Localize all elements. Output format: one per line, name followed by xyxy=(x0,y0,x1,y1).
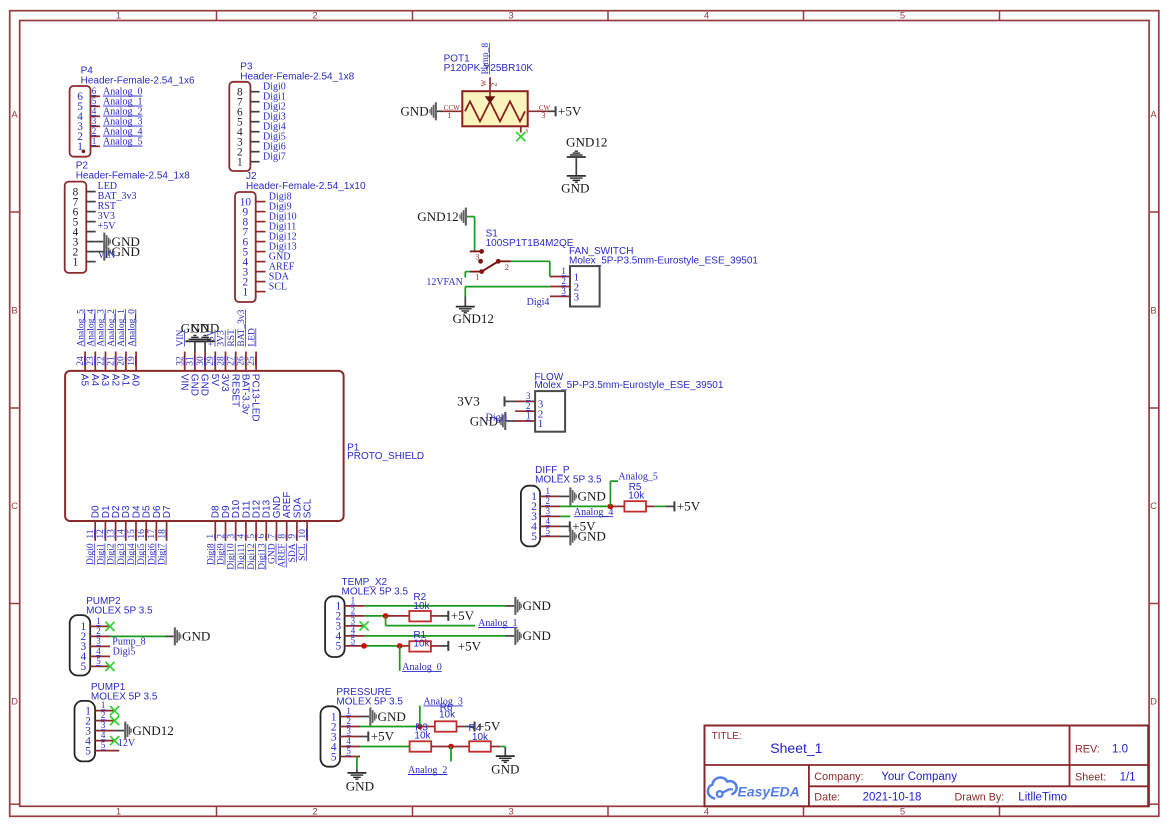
svg-text:4: 4 xyxy=(101,730,106,740)
svg-text:2: 2 xyxy=(92,126,97,136)
svg-text:VIN: VIN xyxy=(98,250,116,261)
ground flag GND at PUMP2 pin2 xyxy=(174,627,211,645)
svg-text:3: 3 xyxy=(508,807,513,818)
TEMP_X2 pin 5 xyxy=(335,636,364,653)
P2 pin 1 xyxy=(73,256,96,268)
P1 pin 15 (D4) xyxy=(127,505,143,541)
svg-text:D: D xyxy=(1150,697,1157,708)
svg-text:3V3: 3V3 xyxy=(219,374,230,392)
svg-text:3: 3 xyxy=(546,506,551,516)
wire Analog_0 xyxy=(399,646,401,671)
svg-text:1: 1 xyxy=(538,418,544,430)
svg-text:3: 3 xyxy=(541,110,545,120)
svg-text:4: 4 xyxy=(546,516,551,526)
potentiometer POT1 body xyxy=(462,91,527,126)
wire PRESSURE pin4 to R3 xyxy=(360,746,410,748)
svg-text:Company:: Company: xyxy=(814,771,863,783)
svg-text:A: A xyxy=(11,110,18,121)
P1 pin 22 (A3) xyxy=(96,352,110,387)
wire Analog_1 xyxy=(386,616,476,626)
FAN_SWITCH pin 3 xyxy=(550,286,580,303)
ground symbol GND12 below S1 xyxy=(453,307,494,327)
svg-text:3: 3 xyxy=(508,10,513,21)
P1 pin 19 (A0) xyxy=(127,352,141,387)
P1 pin 14 (D3) xyxy=(117,505,133,541)
svg-text:3: 3 xyxy=(561,286,566,296)
wire TEMP_X2 pin5 to R1 xyxy=(364,645,409,647)
junction Analog_2 xyxy=(448,744,454,750)
svg-text:+5V: +5V xyxy=(98,221,117,232)
svg-text:B: B xyxy=(11,306,17,317)
svg-text:2: 2 xyxy=(101,710,106,720)
P1 pin 7 (GND) xyxy=(267,496,283,541)
P4 pin 1 xyxy=(77,136,100,153)
connector PUMP2 body xyxy=(70,615,91,675)
wire 12VFAN to FAN_SWITCH pin 2 xyxy=(465,287,550,297)
wire DIFF_P pin1 to GND xyxy=(560,495,569,497)
svg-text:Analog_5: Analog_5 xyxy=(618,471,657,482)
svg-text:Sheet:: Sheet: xyxy=(1075,771,1106,783)
svg-text:Sheet_1: Sheet_1 xyxy=(770,740,822,756)
POT1 bottom pin stub xyxy=(521,126,529,134)
connector DIFF_P body xyxy=(521,486,540,547)
resistor R4 body xyxy=(469,741,491,751)
POT1 wiper arrow xyxy=(485,77,496,103)
P1 pin 21 (A2) xyxy=(107,352,121,387)
connector P4 body xyxy=(70,86,91,157)
DIFF_P pin 4 xyxy=(531,516,560,533)
svg-text:Digi4: Digi4 xyxy=(527,297,550,308)
P2 pin 3 xyxy=(73,236,96,248)
svg-text:D: D xyxy=(11,697,18,708)
ground flag GND at TEMP_X2 pin4 xyxy=(514,627,551,645)
wire PUMP1 pin3 to GND12 xyxy=(115,730,125,732)
svg-text:GND: GND xyxy=(378,709,406,724)
svg-text:Digi1: Digi1 xyxy=(486,413,509,424)
TEMP_X2 pin 3 xyxy=(335,616,364,633)
ground flag GND12 at PUMP1 xyxy=(124,722,174,740)
P1 pin 23 (A4) xyxy=(86,352,100,387)
power flag +5V at POT1 xyxy=(555,104,582,119)
svg-text:1/1: 1/1 xyxy=(1120,771,1136,783)
P3 pin 6 xyxy=(237,107,260,119)
ground symbol GND at R4 xyxy=(491,756,519,776)
svg-text:100SP1T1B4M2QE: 100SP1T1B4M2QE xyxy=(486,238,574,249)
P2 pin 5 xyxy=(73,216,96,228)
svg-text:GND: GND xyxy=(578,489,606,504)
P2 pin 8 xyxy=(73,186,96,198)
svg-text:Molex_5P-P3.5mm-Eurostyle_ESE_: Molex_5P-P3.5mm-Eurostyle_ESE_39501 xyxy=(569,255,758,266)
svg-text:2: 2 xyxy=(546,496,551,506)
P3 pin 3 xyxy=(237,137,260,149)
P4 pin 6 xyxy=(77,86,100,103)
no-connect X at PUMP1 pin2 xyxy=(110,716,119,725)
resistor R6 body xyxy=(435,721,457,731)
wire PRESSURE pin3 to +5V xyxy=(360,736,368,738)
P1 pin 10 (SCL) xyxy=(298,498,314,541)
svg-text:5: 5 xyxy=(531,531,537,543)
P4 pin 3 xyxy=(77,116,100,133)
svg-text:1: 1 xyxy=(96,616,101,626)
connector FLOW body xyxy=(535,391,565,432)
svg-text:5: 5 xyxy=(351,636,356,646)
connector P3 body xyxy=(229,82,250,171)
svg-text:GND: GND xyxy=(491,762,519,777)
wire R1 to +5V xyxy=(431,645,448,647)
wire R3 to junction xyxy=(431,746,451,748)
svg-text:1: 1 xyxy=(243,286,249,298)
P1 pin 29 (5V) xyxy=(206,352,220,387)
svg-text:A3: A3 xyxy=(99,374,110,387)
P1 pin 28 (3V3) xyxy=(216,352,230,393)
svg-text:1: 1 xyxy=(116,10,121,21)
FLOW pin 2 xyxy=(515,401,543,421)
P1 pin 25 (PC13-LED) xyxy=(247,352,261,422)
wire FLOW pin 1 to GND xyxy=(506,420,515,422)
ground symbol GND at PRESSURE pin5 xyxy=(346,773,374,793)
svg-text:3: 3 xyxy=(346,726,351,736)
power flag 3V3 xyxy=(504,396,506,406)
svg-text:D7: D7 xyxy=(162,505,173,518)
svg-text:B: B xyxy=(1150,306,1156,317)
svg-text:2: 2 xyxy=(312,10,317,21)
svg-text:1: 1 xyxy=(73,256,79,268)
S1 common pole xyxy=(478,259,483,264)
wire PUMP2 pin2 to GND xyxy=(110,635,174,637)
junction at TEMP_X2 pin2 xyxy=(383,613,389,619)
S1 blade xyxy=(482,259,501,272)
POT1 pin 3 CW wire xyxy=(528,110,555,112)
svg-text:A: A xyxy=(1150,110,1157,121)
svg-text:SCL: SCL xyxy=(303,498,314,518)
svg-text:1: 1 xyxy=(475,272,479,282)
wire TEMP_X2 pin2 to R2 xyxy=(364,615,409,617)
svg-text:10k: 10k xyxy=(414,731,431,742)
P1 pin 32 (VIN) xyxy=(176,352,190,391)
ground symbol GND below GND12 xyxy=(561,176,589,196)
PUMP2 pin 1 xyxy=(80,616,110,633)
power flag +5V at R2 xyxy=(447,608,474,623)
svg-text:MOLEX 5P 3.5: MOLEX 5P 3.5 xyxy=(86,606,153,617)
wire DIFF_P pin4 to +5V xyxy=(560,525,570,527)
svg-text:3: 3 xyxy=(574,291,580,303)
no-connect X at PUMP2 pin5 xyxy=(105,662,114,671)
ground symbol GND at P1 pin 31 xyxy=(181,320,209,352)
wire junction to R4 xyxy=(451,746,469,748)
P3 pin 7 xyxy=(237,97,260,109)
svg-text:GND: GND xyxy=(346,778,374,793)
wire PRESSURE pin2 to R6 xyxy=(360,726,435,728)
svg-text:PROTO_SHIELD: PROTO_SHIELD xyxy=(347,451,424,462)
svg-text:GND: GND xyxy=(199,374,210,396)
connector PUMP1 body xyxy=(75,701,96,762)
PUMP2 pin 3 xyxy=(80,636,110,653)
P3 pin 4 xyxy=(237,127,260,139)
svg-text:5: 5 xyxy=(346,746,351,756)
J2 pin 8 xyxy=(243,216,266,228)
svg-text:BAT-3.3v: BAT-3.3v xyxy=(240,374,251,414)
PRESSURE pin 4 xyxy=(331,736,360,753)
resistor R3 body xyxy=(410,741,432,751)
P1 pin 27 (RESET) xyxy=(227,352,241,408)
svg-text:s: s xyxy=(526,127,529,135)
svg-text:SCL: SCL xyxy=(269,281,287,292)
svg-text:+5V: +5V xyxy=(677,499,701,514)
ground flag GND at TEMP_X2 pin1 xyxy=(514,597,551,615)
resistor R2 body xyxy=(409,611,431,621)
svg-text:RESET: RESET xyxy=(229,374,240,407)
P1 pin 16 (D5) xyxy=(137,505,153,541)
no-connect X at PUMP2 pin1 xyxy=(105,622,114,631)
svg-text:3: 3 xyxy=(92,116,97,126)
P2 pin 7 xyxy=(73,196,96,208)
EasyEDA logo xyxy=(708,778,737,799)
svg-text:2021-10-18: 2021-10-18 xyxy=(863,792,922,804)
svg-text:1: 1 xyxy=(546,486,551,496)
svg-text:5: 5 xyxy=(80,661,86,673)
connector PRESSURE body xyxy=(321,706,341,766)
svg-text:MOLEX 5P 3.5: MOLEX 5P 3.5 xyxy=(535,474,602,485)
svg-text:1: 1 xyxy=(561,266,566,276)
P1 pin 9 (SDA) xyxy=(288,497,304,541)
title block frame xyxy=(705,726,1149,807)
P4 pin 5 xyxy=(77,96,100,113)
P1 pin 6 (D13) xyxy=(257,499,273,540)
wire R4 to GND xyxy=(491,747,506,756)
no-connect X at PUMP1 pin4 xyxy=(110,736,119,745)
svg-text:4: 4 xyxy=(346,736,351,746)
svg-text:5: 5 xyxy=(546,526,551,536)
svg-text:2: 2 xyxy=(561,276,566,286)
svg-text:1: 1 xyxy=(237,157,243,169)
svg-text:GND: GND xyxy=(578,529,606,544)
svg-text:5V: 5V xyxy=(209,374,220,387)
wire DIFF_P pin5 to GND xyxy=(560,535,569,537)
junction at DIFF_P pin2 xyxy=(608,504,614,510)
P2 pin3 wire to ground xyxy=(96,241,104,243)
ground flag GND at FLOW pin 1 xyxy=(470,412,507,430)
svg-text:GND: GND xyxy=(523,628,551,643)
wire GND12 to GND xyxy=(575,157,577,176)
svg-text:Header-Female-2.54_1x8: Header-Female-2.54_1x8 xyxy=(240,71,354,82)
svg-text:1: 1 xyxy=(116,807,121,818)
power flag +5V at R5 xyxy=(673,499,700,514)
J2 pin 9 xyxy=(243,206,266,218)
wire S1 pin 1 to 12VFAN xyxy=(465,272,470,278)
P4 pin1 dot xyxy=(82,150,86,154)
PRESSURE pin 3 xyxy=(331,726,360,743)
svg-text:12V: 12V xyxy=(118,738,136,749)
svg-text:3: 3 xyxy=(101,720,106,730)
TEMP_X2 pin 1 xyxy=(335,596,364,613)
svg-text:5: 5 xyxy=(92,96,97,106)
FLOW pin 3 xyxy=(515,391,544,411)
svg-text:Date:: Date: xyxy=(814,792,840,804)
PRESSURE pin 2 xyxy=(331,716,360,733)
svg-text:A4: A4 xyxy=(89,374,100,387)
TEMP_X2 pin 4 xyxy=(335,626,364,643)
svg-text:2: 2 xyxy=(312,807,317,818)
svg-text:4: 4 xyxy=(96,646,101,656)
svg-text:1: 1 xyxy=(346,706,351,716)
svg-text:A2: A2 xyxy=(109,374,120,387)
svg-text:Header-Female-2.54_1x8: Header-Female-2.54_1x8 xyxy=(76,170,190,181)
power flag +5V at R1 xyxy=(447,641,449,651)
svg-text:5: 5 xyxy=(900,807,905,818)
connector TEMP_X2 body xyxy=(325,596,345,657)
svg-text:5: 5 xyxy=(335,641,341,653)
svg-text:+5V: +5V xyxy=(451,608,475,623)
P1 pin 31 (GND) xyxy=(186,352,200,397)
junction Analog_0 xyxy=(397,643,403,649)
ground flag GND at DIFF_P pin1 xyxy=(569,487,606,505)
svg-text:GND: GND xyxy=(112,244,140,259)
svg-text:A5: A5 xyxy=(79,374,90,387)
svg-text:4: 4 xyxy=(351,626,356,636)
svg-text:GND: GND xyxy=(191,320,219,335)
svg-text:TITLE:: TITLE: xyxy=(712,731,742,742)
junction Analog_3 xyxy=(417,724,423,730)
wire TEMP_X2 pin4 to GND xyxy=(364,635,514,637)
P3 pin 5 xyxy=(237,117,260,129)
svg-text:3V3: 3V3 xyxy=(457,393,480,408)
DIFF_P pin 2 xyxy=(531,496,560,513)
no-connect X at POT1 bottom pin xyxy=(516,132,525,141)
wire R5 to +5V xyxy=(646,505,674,507)
svg-text:2: 2 xyxy=(526,401,531,411)
wire DIFF_P pin2 to R5 xyxy=(560,505,624,507)
P1 pin 2 (D9) xyxy=(216,505,232,541)
wire PRESSURE pin5 to GND xyxy=(357,757,360,773)
junction at TEMP_X2 pin5 xyxy=(361,643,367,649)
svg-text:+5V: +5V xyxy=(558,104,582,119)
svg-text:Drawn By:: Drawn By: xyxy=(955,792,1005,804)
svg-text:1.0: 1.0 xyxy=(1112,743,1128,755)
svg-text:5: 5 xyxy=(331,751,337,763)
svg-text:GND12: GND12 xyxy=(132,723,173,738)
S1 pin 2 xyxy=(498,261,511,272)
P1 pin 5 (D12) xyxy=(247,499,263,540)
svg-text:3: 3 xyxy=(351,616,356,626)
FLOW pin 1 xyxy=(515,411,543,431)
PRESSURE pin 1 xyxy=(331,706,360,723)
J2 pin 7 xyxy=(243,226,266,238)
svg-text:A1: A1 xyxy=(120,374,131,387)
svg-text:5: 5 xyxy=(96,656,101,666)
wire PRESSURE pin1 to GND xyxy=(360,716,369,718)
J2 pin 2 xyxy=(243,276,266,288)
svg-text:GND12: GND12 xyxy=(453,311,494,326)
P1 pin 26 (BAT-3.3v) xyxy=(237,352,251,415)
resistor R1 body xyxy=(409,641,431,651)
connector J2 body xyxy=(235,192,256,302)
wire S1 pin 2 to FAN_SWITCH pin 1 xyxy=(511,261,550,276)
P1 pin 18 (D7) xyxy=(157,505,173,541)
svg-text:1: 1 xyxy=(92,136,97,146)
P1 pin 8 (AREF) xyxy=(278,492,294,541)
P1 pin 20 (A1) xyxy=(117,352,131,387)
P2 pin 2 xyxy=(73,246,96,258)
svg-text:4: 4 xyxy=(704,807,709,818)
P1 pin 30 (GND) xyxy=(196,352,210,397)
J2 pin 6 xyxy=(243,236,266,248)
svg-text:1: 1 xyxy=(351,596,356,606)
svg-text:+5V: +5V xyxy=(458,638,482,653)
P3 pin 8 xyxy=(237,87,260,99)
S1 pin 1 xyxy=(470,269,484,281)
wire R6 to +5V xyxy=(457,726,475,728)
frame row letters xyxy=(11,110,1157,708)
svg-text:3: 3 xyxy=(526,391,531,401)
svg-text:C: C xyxy=(1150,501,1157,512)
svg-text:2: 2 xyxy=(489,83,499,87)
svg-text:GND: GND xyxy=(189,374,200,396)
S1 pin 3 xyxy=(470,249,484,261)
svg-text:+5V: +5V xyxy=(371,729,395,744)
P2 pin 6 xyxy=(73,206,96,218)
svg-text:5: 5 xyxy=(85,745,91,757)
net port GND12 top xyxy=(566,134,607,157)
wire to ground GND12 below S1 xyxy=(464,297,466,307)
svg-text:Header-Female-2.54_1x6: Header-Female-2.54_1x6 xyxy=(81,76,195,87)
svg-text:12VFAN: 12VFAN xyxy=(426,277,462,288)
svg-text:Header-Female-2.54_1x10: Header-Female-2.54_1x10 xyxy=(246,181,366,192)
PUMP1 pin 1 xyxy=(85,700,114,717)
connector FAN_SWITCH body xyxy=(570,266,600,306)
PUMP1 pin 3 xyxy=(85,720,114,737)
svg-text:VIN: VIN xyxy=(178,374,189,391)
P1 pin 17 (D6) xyxy=(147,505,163,541)
svg-text:GND: GND xyxy=(561,181,589,196)
PUMP1 pin 2 xyxy=(85,710,114,727)
svg-text:A0: A0 xyxy=(130,374,141,387)
svg-text:4: 4 xyxy=(704,10,709,21)
PUMP2 pin 5 xyxy=(80,656,110,673)
P1 pin 4 (D11) xyxy=(237,500,253,541)
power flag +5V at PRESSURE pin3 xyxy=(367,729,394,744)
P1 pin 3 (D10) xyxy=(227,499,243,540)
P1 pin 1 (D8) xyxy=(206,505,222,541)
wire Analog_5 xyxy=(610,481,618,506)
PUMP2 pin 4 xyxy=(80,646,110,663)
ground flag GND at DIFF_P pin5 xyxy=(569,527,606,545)
P2 pin2 wire to ground xyxy=(96,251,104,253)
no-connect X at TEMP_X2 pin3 xyxy=(360,621,369,630)
J2 pin 5 xyxy=(243,246,266,258)
svg-text:LitlleTimo: LitlleTimo xyxy=(1018,792,1067,804)
svg-text:5: 5 xyxy=(900,10,905,21)
P1 pin 13 (D2) xyxy=(106,505,122,541)
svg-text:1: 1 xyxy=(447,110,451,120)
wire GND12 to S1 pin 3 xyxy=(467,217,475,252)
svg-text:4: 4 xyxy=(92,106,97,116)
FAN_SWITCH pin 1 xyxy=(550,266,579,283)
svg-text:REV:: REV: xyxy=(1075,743,1100,755)
PUMP1 pin 4 xyxy=(85,730,114,747)
svg-text:2: 2 xyxy=(505,262,509,272)
P1 pin 12 (D1) xyxy=(96,505,112,541)
wire Analog_3 xyxy=(419,706,421,727)
svg-text:GND: GND xyxy=(182,629,210,644)
power flag +5V at R6 xyxy=(474,719,501,734)
svg-text:GND: GND xyxy=(400,104,428,119)
P1 pin 11 (D0) xyxy=(86,505,102,541)
svg-text:GND12: GND12 xyxy=(417,209,458,224)
PUMP1 pin 5 xyxy=(85,740,119,757)
svg-text:Your Company: Your Company xyxy=(881,771,957,783)
IC P1 body xyxy=(65,371,344,521)
wire TEMP_X2 pin1 to GND xyxy=(364,605,514,607)
